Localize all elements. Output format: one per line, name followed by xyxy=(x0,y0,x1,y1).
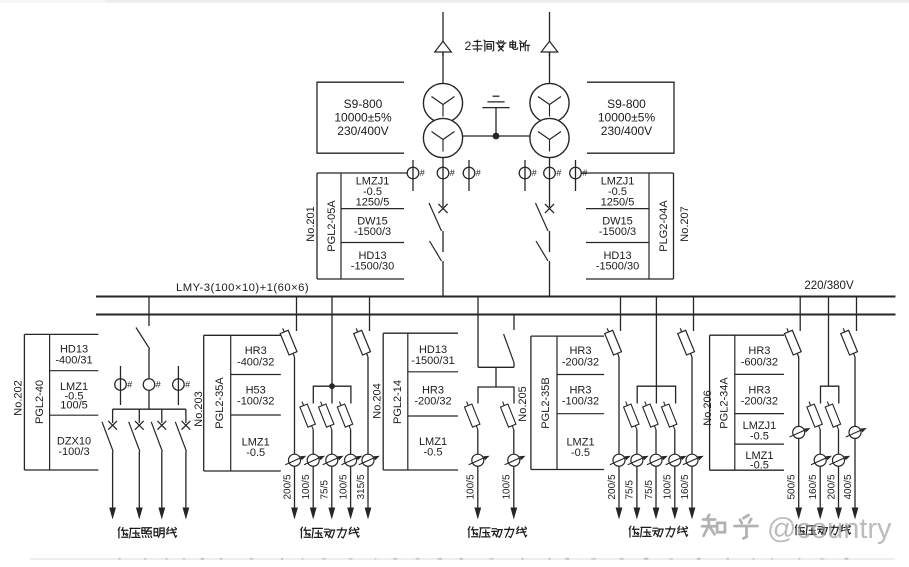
svg-text:-200/32: -200/32 xyxy=(741,396,778,408)
svg-text:220/380V: 220/380V xyxy=(804,280,854,292)
svg-text:-200/32: -200/32 xyxy=(414,396,451,408)
svg-text:No.207: No.207 xyxy=(679,206,691,241)
svg-text:100/5: 100/5 xyxy=(663,474,674,499)
svg-text:-1500/30: -1500/30 xyxy=(351,261,394,273)
svg-text:315/5: 315/5 xyxy=(356,474,367,499)
svg-text:75/5: 75/5 xyxy=(320,480,331,500)
svg-text:400/5: 400/5 xyxy=(843,474,854,499)
svg-text:200/5: 200/5 xyxy=(826,474,837,499)
svg-text:S9-800: S9-800 xyxy=(607,97,646,111)
svg-text:-0.5: -0.5 xyxy=(424,447,443,459)
svg-text:No.204: No.204 xyxy=(371,383,383,418)
svg-text:No.205: No.205 xyxy=(517,386,529,421)
svg-text:-100/32: -100/32 xyxy=(562,396,599,408)
svg-text:S9-800: S9-800 xyxy=(344,97,383,111)
svg-text:100/5: 100/5 xyxy=(338,474,349,499)
svg-text:200/5: 200/5 xyxy=(282,474,293,499)
svg-text:PGL2-35A: PGL2-35A xyxy=(214,377,226,429)
svg-text:PGL2-35B: PGL2-35B xyxy=(540,377,552,428)
svg-text:230/400V: 230/400V xyxy=(601,124,652,138)
svg-text:10000±5%: 10000±5% xyxy=(598,110,656,124)
svg-text:500/5: 500/5 xyxy=(787,474,798,499)
svg-text:No.201: No.201 xyxy=(305,206,317,241)
svg-text:@country: @country xyxy=(767,513,892,545)
svg-text:No.203: No.203 xyxy=(193,391,205,426)
svg-text:HR3: HR3 xyxy=(748,345,770,357)
svg-text:2: 2 xyxy=(465,39,472,53)
svg-text:-1500/3: -1500/3 xyxy=(599,226,636,238)
svg-text:-0.5: -0.5 xyxy=(750,431,769,443)
svg-text:1250/5: 1250/5 xyxy=(601,197,635,209)
svg-text:PGL2-05A: PGL2-05A xyxy=(326,200,338,252)
svg-text:PGL2-40: PGL2-40 xyxy=(34,380,46,424)
svg-text:-400/32: -400/32 xyxy=(237,357,274,369)
svg-text:-100/32: -100/32 xyxy=(237,396,274,408)
svg-text:-1500/30: -1500/30 xyxy=(596,261,639,273)
svg-text:10000±5%: 10000±5% xyxy=(334,110,392,124)
svg-text:-0.5: -0.5 xyxy=(571,447,590,459)
svg-text:160/5: 160/5 xyxy=(808,474,819,499)
svg-text:HR3: HR3 xyxy=(569,345,591,357)
svg-text:-0.5: -0.5 xyxy=(750,460,769,472)
svg-text:PGL2-34A: PGL2-34A xyxy=(718,377,730,429)
svg-text:-400/31: -400/31 xyxy=(55,355,92,367)
svg-text:No.202: No.202 xyxy=(13,380,25,415)
svg-text:-1500/31: -1500/31 xyxy=(411,355,454,367)
svg-text:HR3: HR3 xyxy=(245,345,267,357)
svg-text:160/5: 160/5 xyxy=(680,474,691,499)
svg-text:LMY-3(100×10)+1(60×6): LMY-3(100×10)+1(60×6) xyxy=(176,282,309,294)
svg-text:75/5: 75/5 xyxy=(625,480,636,500)
svg-text:200/5: 200/5 xyxy=(607,474,618,499)
svg-text:-0.5: -0.5 xyxy=(246,447,265,459)
svg-text:PGL2-14: PGL2-14 xyxy=(392,380,404,424)
svg-text:-600/32: -600/32 xyxy=(741,357,778,369)
svg-text:-200/32: -200/32 xyxy=(562,357,599,369)
svg-text:100/5: 100/5 xyxy=(301,474,312,499)
svg-text:100/5: 100/5 xyxy=(502,474,513,499)
svg-text:-1500/3: -1500/3 xyxy=(354,226,391,238)
svg-text:No.206: No.206 xyxy=(702,390,714,425)
svg-text:1250/5: 1250/5 xyxy=(356,197,390,209)
svg-text:75/5: 75/5 xyxy=(644,480,655,500)
svg-text:100/5: 100/5 xyxy=(60,400,88,412)
svg-text:230/400V: 230/400V xyxy=(337,124,388,138)
svg-text:100/5: 100/5 xyxy=(466,474,477,499)
svg-text:-100/3: -100/3 xyxy=(58,446,89,458)
svg-text:PLG2-04A: PLG2-04A xyxy=(658,200,670,252)
